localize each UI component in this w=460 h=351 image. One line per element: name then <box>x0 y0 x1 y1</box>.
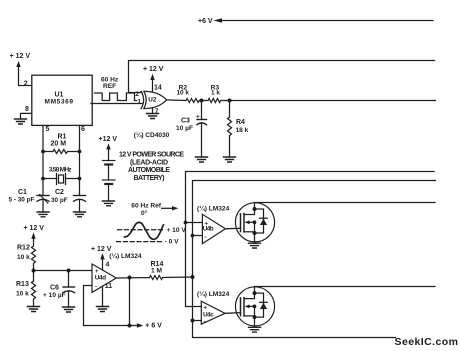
svg-text:MM5369: MM5369 <box>45 98 74 105</box>
svg-text:+ 12 V: + 12 V <box>143 66 164 73</box>
svg-text:U2: U2 <box>148 97 157 104</box>
svg-text:BATTERY): BATTERY) <box>134 175 165 182</box>
svg-text:2: 2 <box>135 91 139 98</box>
svg-text:-: - <box>95 285 97 291</box>
svg-text:SeekIC.com: SeekIC.com <box>395 336 459 348</box>
svg-text:-: - <box>205 235 207 241</box>
svg-text:(¼) LM324: (¼) LM324 <box>197 205 230 213</box>
svg-text:C6: C6 <box>50 285 59 292</box>
svg-text:14: 14 <box>154 84 162 91</box>
svg-text:+ 12 V: + 12 V <box>24 225 45 232</box>
svg-text:+ 12 V: + 12 V <box>91 246 112 253</box>
svg-text:- 0 V: - 0 V <box>165 238 180 245</box>
svg-text:10 k: 10 k <box>177 90 190 97</box>
svg-text:(¼) LM324: (¼) LM324 <box>197 290 230 298</box>
svg-text:6: 6 <box>81 126 85 133</box>
svg-text:+ 12 V: + 12 V <box>10 53 31 60</box>
svg-text:10 k: 10 k <box>16 290 29 297</box>
svg-text:20 M: 20 M <box>51 141 67 148</box>
svg-text:7: 7 <box>155 108 159 115</box>
svg-text:+ 6 V: + 6 V <box>145 323 162 330</box>
svg-text:2: 2 <box>24 80 28 87</box>
svg-text:10 k: 10 k <box>17 254 30 261</box>
svg-text:+: + <box>204 305 208 311</box>
svg-text:8: 8 <box>25 106 29 113</box>
svg-text:U4d: U4d <box>95 275 106 282</box>
svg-text:1: 1 <box>137 98 141 105</box>
svg-text:(LEAD-ACID: (LEAD-ACID <box>130 159 168 166</box>
svg-text:+6 V: +6 V <box>198 18 213 25</box>
svg-text:(¼) CD4030: (¼) CD4030 <box>134 131 170 139</box>
svg-text:18 k: 18 k <box>236 127 249 134</box>
svg-text:0°: 0° <box>141 209 148 217</box>
svg-text:REF: REF <box>103 83 116 90</box>
svg-text:1 k: 1 k <box>211 90 220 97</box>
svg-text:+: + <box>205 221 209 227</box>
svg-text:AUTOMOBILE: AUTOMOBILE <box>128 167 170 174</box>
svg-text:11: 11 <box>105 283 113 290</box>
svg-text:(¼) LM324: (¼) LM324 <box>109 252 142 260</box>
svg-text:R13: R13 <box>16 281 29 288</box>
svg-text:C2: C2 <box>55 189 64 196</box>
svg-text:3.58 MHz: 3.58 MHz <box>49 166 73 173</box>
svg-text:60 Hz Ref: 60 Hz Ref <box>131 203 161 210</box>
svg-text:1 M: 1 M <box>151 268 162 275</box>
svg-text:5: 5 <box>46 126 50 133</box>
svg-text:30 pF: 30 pF <box>51 197 68 204</box>
svg-text:+ 10 V: + 10 V <box>167 227 187 234</box>
svg-text:-: - <box>204 319 206 325</box>
svg-text:R1: R1 <box>58 133 67 140</box>
svg-text:10 µF: 10 µF <box>176 125 193 132</box>
svg-text:C1: C1 <box>18 189 27 196</box>
svg-text:R12: R12 <box>17 245 30 252</box>
svg-text:+: + <box>95 269 99 275</box>
svg-text:4: 4 <box>106 262 110 269</box>
svg-text:R4: R4 <box>236 119 245 126</box>
svg-text:+: + <box>196 114 200 121</box>
svg-text:5 - 30 pF: 5 - 30 pF <box>9 197 35 204</box>
svg-text:C3: C3 <box>181 117 190 124</box>
svg-text:+ 10 µF: + 10 µF <box>43 292 66 299</box>
svg-text:12 V POWER SOURCE: 12 V POWER SOURCE <box>119 152 184 159</box>
svg-text:U4c: U4c <box>203 311 214 318</box>
svg-text:+12 V: +12 V <box>99 136 118 143</box>
